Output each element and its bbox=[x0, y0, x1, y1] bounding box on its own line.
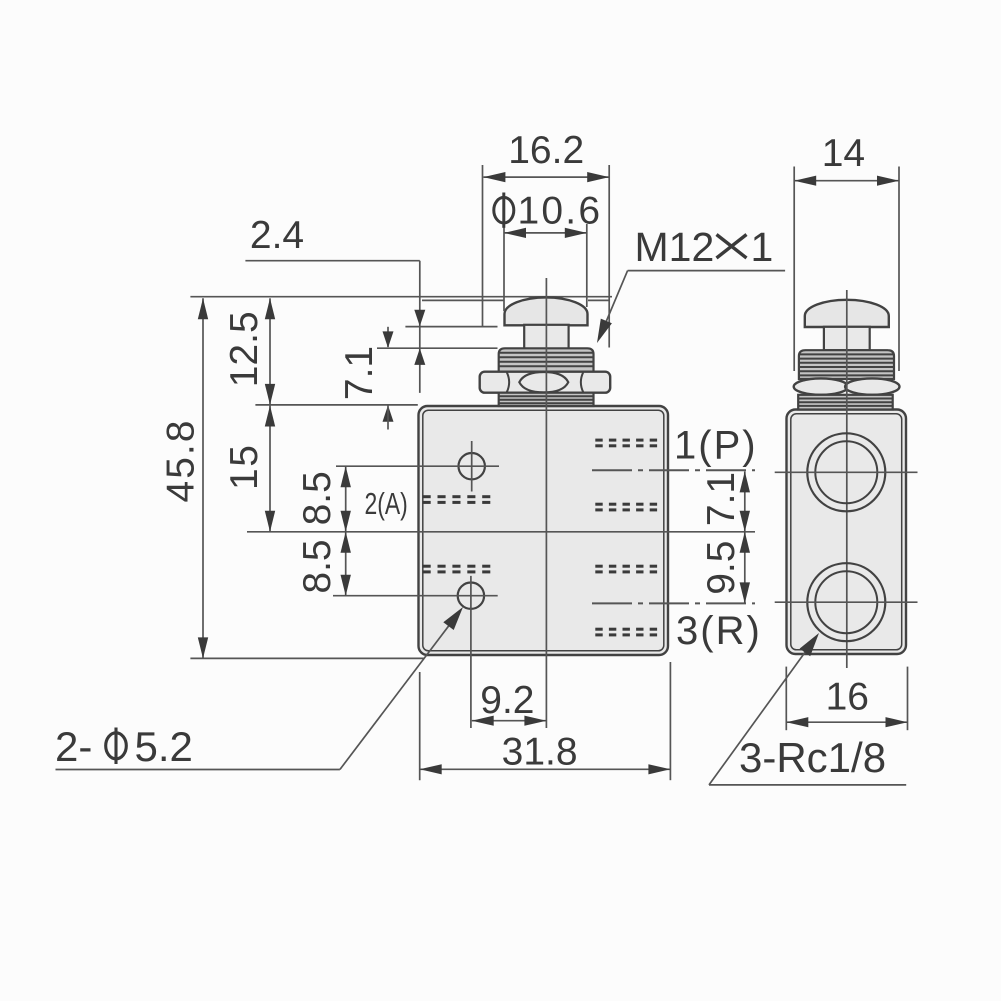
svg-text:8.5: 8.5 bbox=[296, 471, 339, 525]
svg-text:1: 1 bbox=[751, 224, 774, 270]
upper mounting hole bbox=[336, 441, 499, 492]
front view body bbox=[419, 406, 669, 655]
dimension 2.4 bbox=[245, 214, 425, 393]
front view button stem bbox=[524, 325, 568, 349]
side view hex nut (two facet lenses) bbox=[794, 378, 900, 394]
front view push button dome bbox=[505, 297, 588, 325]
svg-text:2(A): 2(A) bbox=[365, 486, 408, 521]
thread dashes left group 2 bbox=[423, 565, 491, 574]
dimension phi 10.6 bbox=[494, 189, 602, 311]
side view push button dome bbox=[805, 300, 889, 327]
side view port 1(P) circles bbox=[775, 433, 918, 511]
side view port 3(R) circles bbox=[775, 563, 918, 641]
extension line: top of button (45.8 / 12.5 datum) bbox=[190, 296, 612, 298]
dimension 9.2 bbox=[472, 679, 547, 726]
svg-text:16.2: 16.2 bbox=[508, 129, 584, 172]
thread dashes right group 3 bbox=[595, 565, 657, 574]
dimension 15 bbox=[223, 406, 275, 532]
dimension 9.5 side bbox=[700, 532, 750, 604]
svg-text:1(P): 1(P) bbox=[674, 424, 758, 468]
svg-text:15: 15 bbox=[223, 444, 266, 490]
extension line: collar top (2.4 / 7.1 datum) bbox=[377, 347, 498, 349]
front view vertical center line bbox=[545, 278, 547, 728]
thread dashes right group 2 bbox=[595, 503, 657, 512]
extension line: dome bottom (2.4 datum) bbox=[405, 326, 497, 328]
side view vertical center line bbox=[846, 290, 848, 668]
svg-text:14: 14 bbox=[822, 132, 865, 175]
svg-text:45.8: 45.8 bbox=[160, 419, 203, 503]
label 2-phi5.2 with leader bbox=[55, 607, 463, 770]
dimension 16.2 bbox=[483, 129, 610, 348]
port 1(P) chain center line bbox=[592, 469, 755, 471]
svg-text:3(R): 3(R) bbox=[676, 609, 762, 653]
svg-text:9.2: 9.2 bbox=[480, 679, 534, 722]
dimension 31.8 bbox=[420, 662, 671, 780]
svg-text:7.1: 7.1 bbox=[338, 346, 381, 400]
svg-text:2-: 2- bbox=[55, 723, 92, 770]
dimension 7.1 front bbox=[338, 327, 394, 430]
dimension 12.5 bbox=[223, 298, 275, 405]
svg-text:5.2: 5.2 bbox=[135, 723, 193, 770]
dimension 14 bbox=[794, 132, 899, 371]
port 3(R) chain center line bbox=[592, 602, 755, 604]
svg-text:10.6: 10.6 bbox=[518, 189, 603, 232]
front view horizontal mid line bbox=[247, 531, 755, 533]
thread dashes left group 1 bbox=[423, 495, 491, 504]
label M12x1 with leader bbox=[597, 224, 785, 343]
dimension 7.1 side bbox=[700, 471, 750, 531]
svg-text:31.8: 31.8 bbox=[502, 731, 578, 774]
thread dashes right group 1 bbox=[595, 439, 657, 448]
dimension 8.5 lower bbox=[296, 532, 351, 596]
dimension 45.8 bbox=[160, 298, 209, 658]
front view threaded collar upper bbox=[499, 348, 594, 371]
svg-text:16: 16 bbox=[826, 676, 869, 719]
side view body bbox=[787, 410, 907, 655]
extension line: secondary top line segments at y=300 bbox=[422, 299, 504, 301]
label 3-Rc1/8 with leader bbox=[709, 633, 906, 785]
svg-text:12.5: 12.5 bbox=[223, 311, 266, 387]
svg-text:7.1: 7.1 bbox=[700, 472, 743, 526]
front view threaded collar lower bbox=[499, 393, 594, 406]
svg-text:2.4: 2.4 bbox=[250, 214, 304, 257]
dimension 8.5 upper bbox=[296, 466, 351, 532]
side view threaded collar lower bbox=[798, 395, 893, 410]
svg-text:9.5: 9.5 bbox=[700, 541, 743, 595]
extension line: body top (12.5 / 15 datum) bbox=[255, 404, 417, 406]
side view button stem bbox=[824, 327, 870, 350]
extension line: bottom of body (45.8 datum) bbox=[190, 657, 424, 659]
front view hex nut bbox=[480, 372, 611, 393]
svg-text:3-Rc1/8: 3-Rc1/8 bbox=[739, 734, 886, 781]
thread dashes right group 4 bbox=[595, 628, 657, 637]
svg-text:8.5: 8.5 bbox=[296, 539, 339, 593]
lower mounting hole bbox=[333, 576, 498, 728]
dimension 16 bbox=[786, 667, 907, 731]
side view threaded collar upper bbox=[799, 350, 894, 379]
svg-text:M12: M12 bbox=[635, 224, 715, 270]
